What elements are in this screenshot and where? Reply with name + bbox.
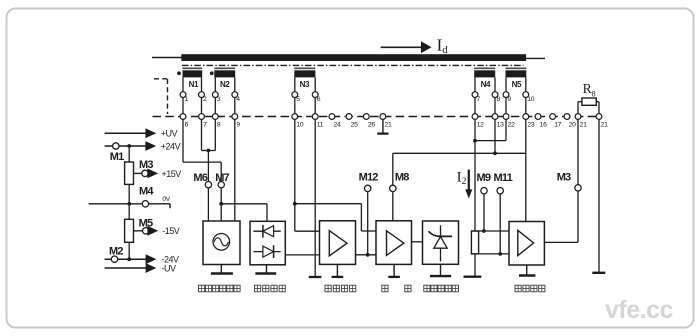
wire: terminal 11 to ground bbox=[314, 119, 316, 276]
resistor divider upper bbox=[125, 162, 134, 184]
pin 9 (winding terminal) bbox=[503, 92, 511, 103]
terminal 10 on row bbox=[292, 114, 304, 129]
wire: branch to peak detector bbox=[221, 204, 267, 222]
svg-text:12: 12 bbox=[477, 121, 484, 128]
svg-text:+15V: +15V bbox=[162, 169, 182, 179]
svg-text:-UV: -UV bbox=[162, 263, 176, 273]
wire: right stub of primary bus bbox=[526, 57, 545, 59]
wire: riser terminal 21 left bbox=[577, 119, 579, 242]
wire: terminal 9 into generator bbox=[234, 119, 236, 221]
wire: 10 winding leg bbox=[525, 77, 527, 91]
junction M11 tap bbox=[498, 252, 502, 256]
svg-text:9: 9 bbox=[236, 121, 240, 128]
transformer N3 (winding on core) bbox=[294, 68, 315, 89]
wire: pin 10 to terminal row bbox=[525, 98, 527, 114]
ground of corrector bbox=[332, 264, 344, 277]
wire: +24V to divider bbox=[128, 148, 130, 162]
svg-text:7: 7 bbox=[477, 96, 481, 103]
wire: M8 feedback line to 13/23 bbox=[393, 152, 526, 154]
terminal 16 on row bbox=[535, 114, 547, 129]
svg-text:M3: M3 bbox=[139, 159, 153, 171]
wire: M7 into generator bbox=[220, 188, 222, 221]
pin 6 (winding terminal) bbox=[312, 92, 320, 103]
label: output power amp (输出功放) bbox=[515, 285, 545, 292]
wire: pin 2 to terminal row bbox=[201, 98, 203, 114]
label: overvoltage protection (过电压保护) bbox=[424, 285, 459, 292]
junction 12/22 bbox=[473, 139, 477, 143]
terminal 17 on row bbox=[550, 114, 562, 129]
wire: M8 into power amp bbox=[392, 192, 394, 221]
svg-text:21: 21 bbox=[601, 121, 608, 128]
block U6: output amplifier bbox=[509, 222, 544, 266]
terminal M11 bbox=[494, 172, 513, 194]
svg-text:M2: M2 bbox=[109, 245, 123, 257]
wire: 5 winding leg bbox=[294, 77, 296, 91]
magnetic core line (dash-dot) bbox=[182, 64, 524, 66]
terminal M3 (output) bbox=[557, 172, 582, 191]
terminal M7 bbox=[215, 172, 229, 188]
resistor divider lower bbox=[125, 219, 134, 242]
svg-text:25: 25 bbox=[351, 121, 358, 128]
terminal M12 bbox=[359, 171, 379, 191]
svg-text:I2: I2 bbox=[457, 170, 467, 188]
wire: 1 winding leg bbox=[182, 77, 184, 91]
svg-text:21: 21 bbox=[385, 121, 392, 128]
junction on +24V bbox=[127, 144, 131, 148]
pin 5 (winding terminal) bbox=[292, 92, 300, 103]
svg-text:22: 22 bbox=[508, 121, 515, 128]
svg-text:26: 26 bbox=[368, 121, 375, 128]
junction 7/8 bbox=[207, 149, 211, 153]
tap +15V with terminal M3 bbox=[134, 159, 182, 179]
svg-text:6: 6 bbox=[317, 96, 321, 103]
terminal 21 on row bbox=[380, 114, 392, 129]
junction M12 tap bbox=[366, 253, 370, 257]
wire: M8 riser up bbox=[392, 153, 394, 185]
wire: terminal 10 down bbox=[294, 119, 296, 231]
wire: 6 winding leg bbox=[314, 77, 316, 91]
wire: shunt to ground bbox=[474, 254, 476, 277]
transformer N1 (winding on core) bbox=[183, 68, 203, 89]
label: sine wave generator (正弦波发生器) bbox=[198, 285, 240, 292]
svg-text:24: 24 bbox=[334, 121, 341, 128]
wire: divider to -24V bbox=[128, 242, 130, 259]
junction on terminal 10 wire bbox=[293, 202, 297, 206]
pin 7 (winding terminal) bbox=[472, 92, 480, 103]
wire: pin 1 to terminal row bbox=[182, 98, 184, 114]
net +24V supply with terminal M1 bbox=[105, 141, 181, 151]
terminal 11 on row bbox=[312, 114, 323, 129]
terminal row bus (dashed) bbox=[153, 116, 600, 118]
net +UV supply arrow bbox=[105, 128, 178, 138]
net 0V rail bbox=[89, 196, 171, 208]
svg-text:9: 9 bbox=[508, 96, 512, 103]
wire: 2 winding leg bbox=[201, 77, 203, 91]
svg-text:8: 8 bbox=[497, 96, 501, 103]
terminal M2 bbox=[109, 245, 123, 262]
terminal 6 on row bbox=[180, 114, 189, 129]
wire: pin 9 to terminal row bbox=[505, 98, 507, 114]
wire: 9 winding leg bbox=[505, 77, 507, 91]
pin 3 (winding terminal) bbox=[212, 92, 220, 103]
block U4: power amplifier bbox=[376, 221, 412, 265]
terminal M9 bbox=[477, 172, 491, 194]
resistor R8 bbox=[578, 81, 599, 113]
pin 10 (winding terminal) bbox=[523, 92, 535, 103]
wire: M12 riser bbox=[367, 192, 369, 255]
svg-text:M7: M7 bbox=[215, 172, 229, 184]
wire: join bar 7-8 bbox=[202, 150, 216, 152]
transformer N4 (winding on core) bbox=[474, 68, 495, 89]
wire: junction to M6 bbox=[207, 151, 209, 182]
svg-text:-15V: -15V bbox=[162, 226, 180, 236]
junction on 0V bbox=[127, 202, 131, 206]
svg-text:M8: M8 bbox=[395, 171, 409, 183]
wire: 8 winding leg bbox=[494, 77, 496, 91]
ground of shunt bbox=[464, 276, 482, 278]
svg-text:+24V: +24V bbox=[161, 141, 181, 151]
wire: pin 6 to terminal row bbox=[314, 98, 316, 114]
svg-text:M5: M5 bbox=[139, 217, 153, 229]
wire: divider middle bbox=[128, 184, 130, 219]
ground under R8 right leg bbox=[592, 272, 605, 274]
terminal M8 bbox=[390, 171, 410, 191]
polarity dot N1 bbox=[177, 71, 181, 75]
svg-text:M6: M6 bbox=[193, 172, 207, 184]
wire: peak detector output to corrector bbox=[285, 254, 319, 256]
junction below M7 bbox=[219, 202, 223, 206]
pin 8 (winding terminal) bbox=[492, 92, 500, 103]
wire: M6 into generator bbox=[207, 188, 209, 221]
wire: left stub of primary bus bbox=[152, 57, 182, 59]
block U1: sine wave generator bbox=[203, 221, 240, 265]
label: peak detect (峰值检测) bbox=[255, 285, 286, 292]
wire: pin 7 to terminal row bbox=[474, 98, 476, 114]
block U3: corrector (amp) bbox=[320, 221, 356, 265]
svg-text:M11: M11 bbox=[494, 172, 513, 184]
ground of overvoltage protection bbox=[430, 264, 451, 276]
pin 4 (winding terminal) bbox=[232, 92, 240, 103]
wire: terminal 13 down bbox=[494, 119, 496, 153]
wire: terminal 23 into output amp bbox=[525, 119, 527, 221]
svg-text:M9: M9 bbox=[477, 172, 491, 184]
svg-text:M4: M4 bbox=[139, 185, 154, 197]
primary bus bar (Id conductor) bbox=[181, 54, 526, 61]
svg-text:1: 1 bbox=[185, 96, 189, 103]
wire: terminal 21 right to ground bbox=[598, 119, 600, 272]
svg-text:10: 10 bbox=[296, 121, 303, 128]
current arrow Id bbox=[381, 36, 449, 57]
ground of terminal 11 bbox=[309, 276, 322, 278]
wire: 3 winding leg bbox=[214, 77, 216, 91]
terminal M1 bbox=[110, 143, 124, 163]
svg-text:2: 2 bbox=[203, 96, 207, 103]
svg-text:13: 13 bbox=[497, 121, 504, 128]
wire: shunt top sense to output amp bbox=[471, 230, 509, 232]
transformer N5 (winding on core) bbox=[506, 68, 527, 89]
shunt resistor bbox=[471, 231, 478, 254]
wire: terminal 6 down bbox=[182, 119, 184, 162]
terminal M4 bbox=[139, 185, 154, 207]
wire: across to M7 bbox=[183, 161, 221, 163]
wire: pin 3 to terminal row bbox=[214, 98, 216, 114]
svg-text:M1: M1 bbox=[110, 151, 124, 163]
block U2: peak detector bbox=[250, 221, 285, 264]
svg-text:R8: R8 bbox=[583, 81, 596, 99]
svg-text:M12: M12 bbox=[359, 171, 379, 183]
svg-text:4: 4 bbox=[236, 96, 240, 103]
terminal 12 on row bbox=[472, 114, 484, 129]
pin 1 (winding terminal) bbox=[180, 92, 188, 103]
terminal 7 on row bbox=[199, 114, 208, 129]
wire: M9 riser bbox=[483, 194, 485, 231]
terminal 21 on row bbox=[596, 114, 608, 129]
svg-text:21: 21 bbox=[580, 121, 587, 128]
wire: 4 winding leg bbox=[234, 77, 236, 91]
label: corrector loop (校正回路) bbox=[325, 285, 356, 292]
label: power (功) bbox=[382, 285, 388, 292]
terminal M6 bbox=[193, 172, 211, 188]
wire: branch to power amp bbox=[295, 204, 376, 231]
svg-text:N5: N5 bbox=[512, 80, 522, 89]
pin 2 (winding terminal) bbox=[199, 92, 207, 103]
terminal 25 on row bbox=[346, 114, 358, 129]
svg-text:17: 17 bbox=[554, 121, 561, 128]
svg-text:N3: N3 bbox=[300, 80, 310, 89]
svg-text:7: 7 bbox=[203, 121, 207, 128]
wire: into corrector input bbox=[295, 230, 320, 232]
svg-text:N4: N4 bbox=[481, 80, 491, 89]
svg-text:16: 16 bbox=[540, 121, 547, 128]
terminal 23 on row bbox=[523, 114, 535, 129]
terminal 20 on row bbox=[564, 114, 576, 129]
current arrow I2 bbox=[457, 170, 473, 199]
wire: shunt bottom sense to output amp bbox=[471, 253, 509, 255]
label: amp (放) bbox=[405, 285, 411, 292]
svg-text:5: 5 bbox=[296, 96, 300, 103]
svg-text:23: 23 bbox=[527, 121, 534, 128]
wire: power amp output bbox=[412, 241, 423, 243]
svg-text:3: 3 bbox=[217, 96, 221, 103]
terminal 9 on row bbox=[232, 114, 240, 129]
transformer N2 (winding on core) bbox=[214, 68, 235, 89]
terminal 22 on row bbox=[503, 114, 515, 129]
net -UV supply arrow bbox=[105, 263, 176, 273]
wire: output amp to R8 node bbox=[544, 241, 578, 243]
tap -15V with terminal M5 bbox=[134, 217, 180, 236]
ground at terminal 21 bbox=[377, 119, 388, 133]
net -24V with terminal M2 bbox=[105, 254, 179, 264]
ground of peak detector bbox=[255, 265, 276, 274]
svg-text:vfe.cc: vfe.cc bbox=[605, 296, 673, 324]
terminal 8 on row bbox=[212, 114, 220, 129]
wire: down to M7 bbox=[220, 162, 222, 181]
junction on -24V bbox=[127, 257, 131, 261]
svg-text:10: 10 bbox=[527, 96, 534, 103]
wire: 22 to 12 join bbox=[475, 119, 506, 140]
svg-text:+UV: +UV bbox=[161, 128, 178, 138]
wire: M11 riser bbox=[499, 194, 501, 254]
svg-text:11: 11 bbox=[317, 121, 324, 128]
svg-text:6: 6 bbox=[185, 121, 189, 128]
svg-text:N1: N1 bbox=[189, 80, 199, 89]
wire: terminal 12 down bbox=[474, 119, 476, 231]
junction terminal 13 bbox=[493, 151, 497, 155]
shield boundary (dashed corner) bbox=[154, 79, 168, 114]
ground of output amplifier bbox=[519, 265, 535, 276]
wire: pin 8 to terminal row bbox=[494, 98, 496, 114]
polarity dot N2 bbox=[210, 71, 214, 75]
terminal 24 on row bbox=[329, 114, 341, 129]
wire: 7 winding leg bbox=[474, 77, 476, 91]
svg-text:Id: Id bbox=[437, 36, 449, 57]
terminal 13 on row bbox=[492, 114, 504, 129]
junction M9 tap bbox=[482, 229, 486, 233]
wire: pin 4 to terminal row bbox=[234, 98, 236, 114]
terminal 21 on row bbox=[575, 114, 587, 129]
block U5: overvoltage protection (zener) bbox=[423, 221, 459, 264]
svg-text:M3: M3 bbox=[557, 172, 571, 184]
svg-text:0V: 0V bbox=[162, 196, 170, 203]
ground of sine generator bbox=[211, 265, 233, 274]
wire: terminal 8 down bbox=[214, 119, 216, 150]
svg-text:8: 8 bbox=[217, 121, 221, 128]
wire: terminal 7 down bbox=[201, 119, 203, 150]
wire: pin 5 to terminal row bbox=[294, 98, 296, 114]
wire: corrector output to power amp bbox=[356, 254, 377, 256]
terminal 26 on row bbox=[363, 114, 375, 129]
ground of power amplifier bbox=[388, 264, 400, 277]
svg-text:N2: N2 bbox=[220, 80, 230, 89]
svg-text:20: 20 bbox=[569, 121, 576, 128]
